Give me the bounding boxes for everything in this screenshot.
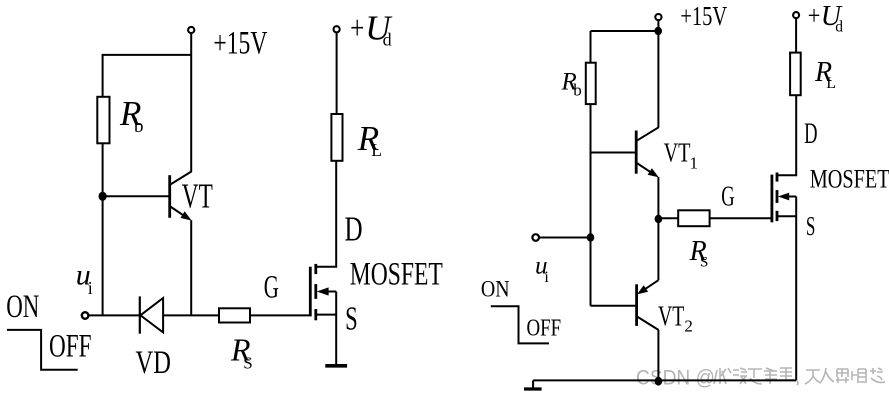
wire: emitter down to input row — [190, 220, 192, 315]
wire: VT2 base — [591, 305, 636, 307]
transistor VT1 emitter with arrow — [637, 163, 659, 177]
transistor VT collector — [170, 171, 191, 184]
label G (right) — [721, 181, 734, 212]
svg-text:OFF: OFF — [527, 314, 562, 341]
svg-text:i: i — [544, 269, 549, 286]
label +15V (right) — [680, 0, 727, 31]
transistor VT2 collector — [637, 317, 658, 330]
label S (left) — [345, 300, 358, 337]
svg-text:b: b — [573, 81, 582, 100]
MOSFET source lead (right) — [777, 197, 796, 381]
svg-text:S: S — [243, 353, 252, 372]
junction node: push-pull output — [655, 215, 663, 223]
svg-text:+15V: +15V — [680, 0, 727, 31]
diode VD cathode bar — [139, 296, 141, 333]
svg-text:ON: ON — [481, 277, 510, 303]
label ui (left) — [76, 259, 93, 298]
label ON (right) — [481, 277, 510, 303]
label D (right) — [804, 117, 817, 150]
svg-text:D: D — [345, 211, 363, 249]
wire: Rs to gate (right) — [710, 217, 771, 219]
svg-text:L: L — [371, 140, 382, 160]
+15V label (left) — [213, 26, 267, 62]
MOSFET drain lead (right) — [777, 95, 796, 175]
wire: +Ud down to RL (left) — [336, 33, 338, 114]
svg-text:+: + — [808, 1, 821, 31]
wire: RL down to drain (left) — [335, 160, 337, 162]
+15V terminal (right) — [655, 14, 661, 20]
MOSFET channel dashes (right) — [776, 173, 779, 222]
svg-text:+: + — [350, 10, 364, 47]
MOSFET body arrow (right) — [778, 193, 796, 201]
label Rs (right) — [689, 236, 709, 271]
wire: left rail above Rb (right) — [590, 31, 592, 63]
wire: base of VT — [103, 195, 169, 197]
label +Ud (left circuit) — [350, 8, 393, 49]
label Rb (left) — [119, 94, 144, 137]
svg-text:MOSFET: MOSFET — [810, 164, 889, 194]
resistor RL (right) — [790, 53, 801, 96]
svg-text:VT: VT — [658, 301, 684, 332]
transistor VT2 base bar — [635, 284, 638, 326]
svg-text:G: G — [264, 270, 279, 306]
svg-text:b: b — [134, 116, 144, 137]
label VT2 — [658, 301, 693, 335]
transistor VT2 emitter with arrow — [637, 280, 658, 294]
svg-text:VT: VT — [664, 136, 691, 167]
svg-text:L: L — [826, 75, 836, 92]
wire: +Ud down to RL (right) — [795, 18, 797, 52]
wire: left rail below Rb down to VT2 base row (right) — [590, 104, 592, 306]
label OFF (left) — [49, 328, 92, 364]
label Rb (right) — [561, 69, 582, 100]
label MOSFET (left) — [350, 256, 443, 292]
resistor Rs (right) — [678, 210, 709, 226]
svg-text:G: G — [721, 181, 734, 212]
label D (left) — [345, 211, 363, 249]
label +Ud (right) — [808, 1, 844, 36]
MOSFET source lead (left) — [316, 292, 336, 366]
label VT — [182, 177, 213, 216]
label RL (right) — [814, 57, 836, 92]
label RL (left) — [357, 119, 382, 160]
label OFF (right) — [527, 314, 562, 341]
waveform step (left) — [7, 330, 78, 370]
diode VD triangle — [140, 298, 163, 332]
transistor VT base bar — [168, 175, 171, 218]
svg-text:MOSFET: MOSFET — [350, 256, 443, 292]
wire: VT2 collector down to ground rail — [657, 330, 659, 381]
label Rs (left) — [230, 332, 253, 373]
MOSFET gate bar (right) — [771, 175, 774, 223]
junction node at +15V rail (right) — [654, 27, 662, 35]
label S (right) — [806, 211, 816, 241]
watermark CSDN @ — [636, 365, 715, 389]
resistor RL (left) — [331, 114, 342, 161]
wire: top horizontal (right) — [591, 30, 659, 32]
wire: VT1 collector up to +15V node — [657, 31, 659, 127]
svg-text:S: S — [345, 300, 358, 337]
MOSFET gate bar (left) — [309, 267, 312, 317]
+Ud terminal (right) — [793, 12, 799, 18]
waveform step (right) — [491, 306, 549, 343]
label VT1 — [664, 136, 698, 172]
svg-text:D: D — [804, 117, 817, 150]
wire: input to rail (right) — [539, 237, 591, 239]
wire: Rs to gate — [250, 314, 309, 316]
+Ud terminal (left circuit) — [334, 26, 340, 32]
input terminal circle (left) — [82, 312, 89, 319]
wire: input to diode — [88, 314, 139, 316]
label ui (right) — [535, 253, 549, 286]
junction node on ground rail — [655, 377, 663, 386]
transistor VT1 collector — [637, 127, 659, 141]
wire: left rail below Rb down to input row — [102, 143, 104, 315]
wire: node down to VT2 emitter diag — [657, 219, 659, 280]
junction node: input tap (right) — [587, 233, 595, 241]
MOSFET channel dashes (left) — [314, 264, 317, 320]
wire: terminal stub (right) — [657, 20, 659, 31]
junction node: base tap — [99, 192, 107, 201]
MOSFET body arrow (left) — [317, 287, 336, 295]
transistor VT emitter with arrow — [170, 207, 191, 221]
svg-text:2: 2 — [684, 317, 693, 336]
svg-text:S: S — [806, 211, 816, 241]
wire: top horizontal rail — [102, 54, 192, 56]
wire: VT1 base — [591, 152, 636, 154]
label MOSFET (right) — [810, 164, 889, 194]
resistor Rs (left) — [219, 308, 250, 322]
wire: node to Rs (right) — [658, 217, 678, 219]
label G (left) — [264, 270, 279, 306]
label ON (left) — [6, 289, 39, 325]
input terminal circle (right) — [532, 234, 539, 241]
wire: diode to Rs — [163, 314, 219, 316]
svg-text:+15V: +15V — [213, 26, 267, 62]
resistor Rb (right) — [586, 63, 596, 104]
watermark CJK characters (approximated strokes) — [714, 368, 885, 385]
svg-text:VD: VD — [136, 345, 171, 381]
ground bar (left) — [325, 364, 347, 368]
MOSFET drain lead (left) — [316, 161, 336, 267]
wire: left rail above Rb — [102, 55, 104, 97]
wire: bottom ground rail (right) — [533, 379, 796, 381]
svg-text:i: i — [88, 278, 93, 298]
svg-text:VT: VT — [182, 177, 213, 216]
svg-text:OFF: OFF — [49, 328, 92, 364]
svg-text:ON: ON — [6, 289, 39, 325]
resistor Rb (left) — [97, 97, 109, 144]
wire: VT1 emitter down to node — [657, 177, 659, 219]
svg-text:S: S — [700, 254, 708, 270]
svg-text:d: d — [383, 30, 392, 50]
svg-text:CSDN @: CSDN @ — [636, 365, 715, 389]
transistor VT1 base bar — [635, 131, 638, 174]
svg-text:1: 1 — [690, 154, 699, 173]
label VD — [136, 345, 171, 381]
ground symbol (right) — [524, 380, 542, 389]
+15V terminal (left) — [188, 27, 194, 33]
svg-text:d: d — [835, 19, 843, 36]
wire: +15V terminal down to collector corner — [190, 33, 192, 172]
